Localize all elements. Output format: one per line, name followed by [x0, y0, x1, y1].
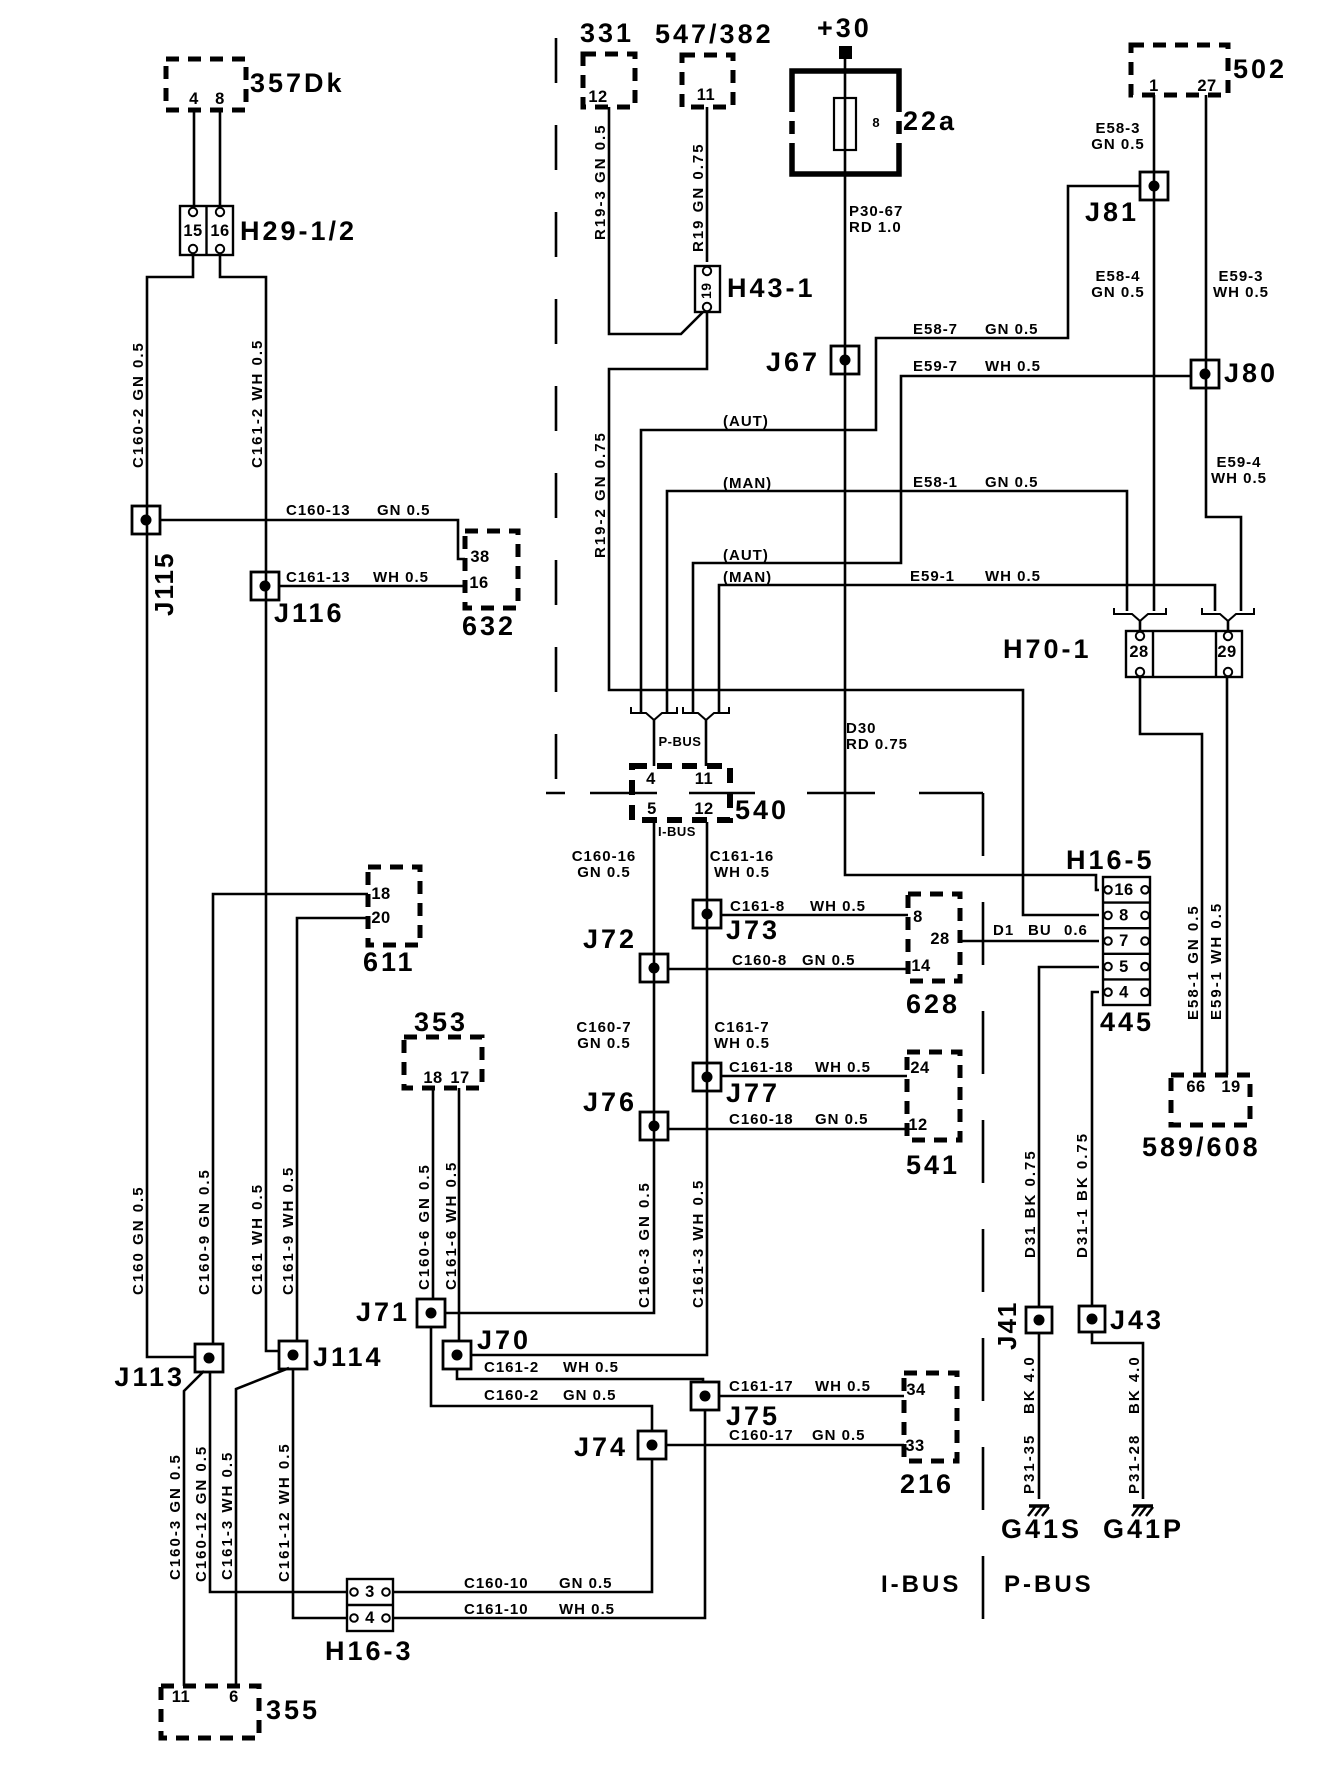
svg-text:J41: J41 — [992, 1301, 1022, 1350]
svg-text:E58-7: E58-7 — [913, 321, 958, 338]
svg-text:547/382: 547/382 — [655, 19, 774, 49]
svg-text:C160-17: C160-17 — [729, 1427, 794, 1444]
svg-text:R19 GN 0.75: R19 GN 0.75 — [690, 142, 707, 252]
svg-text:C160-3 GN 0.5: C160-3 GN 0.5 — [167, 1453, 184, 1580]
svg-text:GN 0.5: GN 0.5 — [577, 1035, 631, 1052]
svg-text:GN 0.5: GN 0.5 — [985, 474, 1039, 491]
svg-text:GN 0.5: GN 0.5 — [815, 1111, 869, 1128]
svg-text:RD 1.0: RD 1.0 — [849, 219, 902, 236]
svg-text:C160-7: C160-7 — [576, 1019, 631, 1036]
svg-text:5: 5 — [1119, 958, 1129, 976]
svg-text:589/608: 589/608 — [1142, 1132, 1261, 1162]
svg-text:18: 18 — [423, 1069, 442, 1087]
svg-text:353: 353 — [414, 1007, 468, 1037]
svg-text:331: 331 — [580, 18, 634, 48]
svg-text:P-BUS: P-BUS — [1004, 1571, 1094, 1598]
svg-text:P-BUS: P-BUS — [659, 734, 702, 749]
svg-text:D30: D30 — [846, 720, 877, 737]
svg-text:E59-3: E59-3 — [1218, 268, 1263, 285]
svg-text:C161-10: C161-10 — [464, 1601, 529, 1618]
svg-text:11: 11 — [697, 86, 715, 104]
svg-text:C160-18: C160-18 — [729, 1111, 794, 1128]
svg-text:WH 0.5: WH 0.5 — [985, 358, 1041, 375]
svg-text:22a: 22a — [903, 106, 957, 136]
svg-text:502: 502 — [1233, 54, 1287, 84]
svg-text:G41S: G41S — [1001, 1514, 1082, 1544]
svg-text:J116: J116 — [274, 598, 345, 628]
svg-text:R19-3 GN 0.5: R19-3 GN 0.5 — [592, 123, 609, 240]
svg-text:GN 0.5: GN 0.5 — [1091, 136, 1145, 153]
svg-text:J70: J70 — [477, 1325, 531, 1355]
svg-text:(MAN): (MAN) — [723, 569, 772, 586]
svg-text:C161 WH 0.5: C161 WH 0.5 — [249, 1183, 266, 1295]
svg-text:J43: J43 — [1110, 1305, 1164, 1335]
svg-text:H70-1: H70-1 — [1003, 634, 1092, 664]
svg-text:WH 0.5: WH 0.5 — [373, 569, 429, 586]
svg-text:628: 628 — [906, 989, 960, 1019]
svg-text:C160-2: C160-2 — [484, 1387, 539, 1404]
svg-text:BU: BU — [1028, 922, 1052, 939]
svg-text:H16-3: H16-3 — [325, 1636, 414, 1666]
svg-text:(MAN): (MAN) — [723, 475, 772, 492]
svg-text:3: 3 — [365, 1583, 375, 1601]
svg-text:C161-18: C161-18 — [729, 1059, 794, 1076]
svg-text:GN 0.5: GN 0.5 — [559, 1575, 613, 1592]
svg-text:GN 0.5: GN 0.5 — [1091, 284, 1145, 301]
svg-text:J74: J74 — [574, 1432, 628, 1462]
svg-text:4: 4 — [1119, 983, 1129, 1001]
svg-text:C160-12 GN 0.5: C160-12 GN 0.5 — [193, 1445, 210, 1582]
svg-text:C161-17: C161-17 — [729, 1378, 794, 1395]
svg-text:E59-7: E59-7 — [913, 358, 958, 375]
svg-text:P31-28: P31-28 — [1126, 1434, 1143, 1494]
svg-text:632: 632 — [462, 611, 516, 641]
svg-text:1: 1 — [1149, 77, 1159, 95]
svg-text:(AUT): (AUT) — [723, 547, 769, 564]
svg-text:D31 BK 0.75: D31 BK 0.75 — [1022, 1149, 1039, 1258]
svg-text:C160-6 GN 0.5: C160-6 GN 0.5 — [416, 1163, 433, 1290]
svg-text:5: 5 — [647, 800, 657, 818]
svg-text:C160-3 GN 0.5: C160-3 GN 0.5 — [636, 1181, 653, 1308]
svg-text:16: 16 — [1114, 881, 1133, 899]
svg-text:4: 4 — [365, 1609, 375, 1627]
svg-text:GN 0.5: GN 0.5 — [802, 952, 856, 969]
svg-text:WH 0.5: WH 0.5 — [1213, 284, 1269, 301]
svg-text:WH 0.5: WH 0.5 — [1211, 470, 1267, 487]
svg-text:20: 20 — [371, 909, 390, 927]
svg-text:C160-16: C160-16 — [572, 848, 637, 865]
svg-text:4: 4 — [189, 90, 199, 108]
svg-text:I-BUS: I-BUS — [658, 824, 696, 839]
svg-text:E59-4: E59-4 — [1216, 454, 1261, 471]
svg-text:12: 12 — [588, 88, 607, 106]
svg-text:8: 8 — [913, 908, 923, 926]
svg-text:16: 16 — [210, 222, 229, 240]
svg-text:33: 33 — [905, 1437, 924, 1455]
svg-text:WH 0.5: WH 0.5 — [714, 1035, 770, 1052]
svg-text:15: 15 — [183, 222, 202, 240]
svg-text:C161-3 WH 0.5: C161-3 WH 0.5 — [219, 1451, 236, 1580]
svg-text:GN 0.5: GN 0.5 — [577, 864, 631, 881]
svg-text:WH 0.5: WH 0.5 — [815, 1059, 871, 1076]
svg-text:J115: J115 — [149, 552, 179, 616]
svg-text:611: 611 — [363, 947, 416, 977]
svg-text:D1: D1 — [993, 922, 1014, 939]
svg-text:RD 0.75: RD 0.75 — [846, 736, 908, 753]
svg-text:J71: J71 — [356, 1297, 410, 1327]
svg-text:34: 34 — [906, 1381, 926, 1399]
svg-text:I-BUS: I-BUS — [881, 1571, 961, 1598]
svg-text:J80: J80 — [1224, 358, 1278, 388]
svg-text:WH 0.5: WH 0.5 — [559, 1601, 615, 1618]
svg-text:C161-7: C161-7 — [714, 1019, 769, 1036]
svg-text:E58-1: E58-1 — [913, 474, 958, 491]
svg-text:J76: J76 — [583, 1087, 637, 1117]
svg-text:WH 0.5: WH 0.5 — [714, 864, 770, 881]
svg-text:P31-35: P31-35 — [1021, 1434, 1038, 1494]
svg-text:4: 4 — [646, 770, 656, 788]
svg-text:C160-13: C160-13 — [286, 502, 351, 519]
svg-text:+30: +30 — [817, 13, 872, 43]
svg-text:C161-12 WH 0.5: C161-12 WH 0.5 — [276, 1442, 293, 1582]
svg-text:G41P: G41P — [1103, 1514, 1184, 1544]
svg-text:R19-2 GN 0.75: R19-2 GN 0.75 — [592, 431, 609, 558]
svg-text:C160-8: C160-8 — [732, 952, 787, 969]
svg-text:P30-67: P30-67 — [849, 203, 903, 220]
svg-text:H43-1: H43-1 — [727, 273, 816, 303]
svg-text:J114: J114 — [313, 1342, 384, 1372]
svg-text:8: 8 — [1119, 907, 1129, 925]
svg-text:8: 8 — [215, 90, 225, 108]
svg-text:18: 18 — [371, 885, 390, 903]
svg-text:BK 4.0: BK 4.0 — [1126, 1355, 1143, 1414]
svg-text:E58-1 GN 0.5: E58-1 GN 0.5 — [1185, 904, 1202, 1020]
svg-text:J72: J72 — [583, 924, 637, 954]
svg-text:C161-2: C161-2 — [484, 1359, 539, 1376]
svg-text:C161-2 WH 0.5: C161-2 WH 0.5 — [249, 339, 266, 468]
svg-text:17: 17 — [450, 1069, 469, 1087]
svg-text:38: 38 — [470, 548, 489, 566]
svg-text:541: 541 — [906, 1150, 960, 1180]
svg-text:19: 19 — [698, 282, 714, 299]
svg-text:C161-3 WH 0.5: C161-3 WH 0.5 — [690, 1179, 707, 1308]
svg-text:C161-13: C161-13 — [286, 569, 351, 586]
svg-text:28: 28 — [1129, 643, 1148, 661]
svg-text:8: 8 — [872, 115, 879, 130]
svg-text:540: 540 — [735, 795, 789, 825]
svg-text:J81: J81 — [1085, 197, 1139, 227]
svg-text:E58-3: E58-3 — [1095, 120, 1140, 137]
svg-text:445: 445 — [1100, 1007, 1154, 1037]
svg-text:WH 0.5: WH 0.5 — [810, 898, 866, 915]
svg-text:WH 0.5: WH 0.5 — [985, 568, 1041, 585]
svg-text:C160-2 GN 0.5: C160-2 GN 0.5 — [130, 341, 147, 468]
svg-text:GN 0.5: GN 0.5 — [985, 321, 1039, 338]
svg-text:16: 16 — [469, 574, 488, 592]
svg-text:27: 27 — [1197, 77, 1216, 95]
svg-text:E58-4: E58-4 — [1095, 268, 1140, 285]
svg-text:J67: J67 — [766, 347, 820, 377]
svg-text:(AUT): (AUT) — [723, 413, 769, 430]
svg-text:J77: J77 — [726, 1078, 780, 1108]
svg-text:E59-1 WH 0.5: E59-1 WH 0.5 — [1208, 902, 1225, 1020]
svg-text:6: 6 — [229, 1688, 239, 1706]
svg-text:14: 14 — [911, 957, 931, 975]
svg-text:24: 24 — [910, 1059, 930, 1077]
svg-text:C161-9 WH 0.5: C161-9 WH 0.5 — [280, 1166, 297, 1295]
svg-text:GN 0.5: GN 0.5 — [812, 1427, 866, 1444]
svg-text:J73: J73 — [726, 915, 780, 945]
svg-text:7: 7 — [1119, 932, 1129, 950]
svg-text:355: 355 — [266, 1695, 320, 1725]
svg-text:WH 0.5: WH 0.5 — [815, 1378, 871, 1395]
svg-text:66: 66 — [1186, 1078, 1205, 1096]
svg-text:C160 GN 0.5: C160 GN 0.5 — [130, 1185, 147, 1295]
svg-text:0.6: 0.6 — [1064, 922, 1088, 939]
svg-text:11: 11 — [695, 770, 713, 788]
svg-text:J113: J113 — [114, 1362, 185, 1392]
svg-text:C161-8: C161-8 — [730, 898, 785, 915]
svg-text:E59-1: E59-1 — [910, 568, 955, 585]
svg-text:H29-1/2: H29-1/2 — [240, 216, 357, 246]
svg-text:GN 0.5: GN 0.5 — [563, 1387, 617, 1404]
svg-text:D31-1 BK 0.75: D31-1 BK 0.75 — [1074, 1132, 1091, 1258]
svg-text:11: 11 — [172, 1688, 190, 1706]
svg-text:28: 28 — [930, 930, 949, 948]
svg-text:GN 0.5: GN 0.5 — [377, 502, 431, 519]
svg-text:C160-9 GN 0.5: C160-9 GN 0.5 — [196, 1168, 213, 1295]
svg-text:C161-16: C161-16 — [710, 848, 775, 865]
svg-text:216: 216 — [900, 1469, 954, 1499]
svg-text:C161-6 WH 0.5: C161-6 WH 0.5 — [443, 1161, 460, 1290]
svg-text:C160-10: C160-10 — [464, 1575, 529, 1592]
svg-text:12: 12 — [694, 800, 713, 818]
svg-text:12: 12 — [908, 1116, 927, 1134]
svg-text:BK 4.0: BK 4.0 — [1021, 1355, 1038, 1414]
svg-text:29: 29 — [1217, 643, 1236, 661]
svg-text:WH 0.5: WH 0.5 — [563, 1359, 619, 1376]
svg-text:19: 19 — [1221, 1078, 1240, 1096]
svg-text:357Dk: 357Dk — [250, 68, 345, 98]
svg-text:H16-5: H16-5 — [1066, 845, 1155, 875]
